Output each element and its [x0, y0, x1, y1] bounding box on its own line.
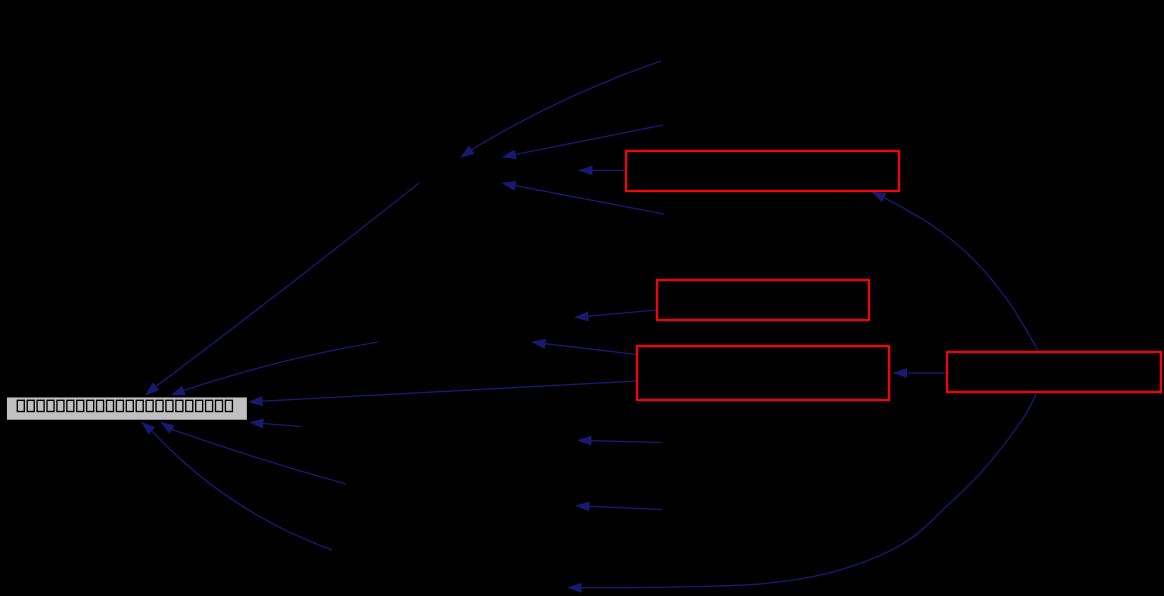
- edge middle node2 to gray node arrowhead: [171, 386, 186, 396]
- node R4 (red truncated box): [947, 352, 1161, 392]
- node R3 (red truncated box): [637, 346, 889, 400]
- edge caller3 to middle node arrowhead: [501, 181, 516, 191]
- edge node R3 to middle node: [545, 344, 636, 355]
- edge lower node1 to gray node (curve) arrowhead: [160, 422, 175, 434]
- edge node R2 to middle node arrowhead: [574, 311, 589, 321]
- edge caller1 to middle node: [472, 61, 661, 150]
- edge node R3 to middle node arrowhead: [531, 339, 546, 349]
- edge node R4 to node R3 arrowhead: [893, 368, 908, 378]
- edge node R1 to middle node arrowhead: [578, 165, 593, 175]
- edge lower node1 to gray node (curve): [172, 430, 346, 485]
- edge short caller to gray node arrowhead: [249, 419, 264, 429]
- edge middle node to gray node arrowhead: [145, 382, 159, 395]
- edge caller4 to middle node arrowhead: [577, 436, 592, 446]
- edge lower node2 to gray node (curve): [152, 431, 332, 550]
- edge node R4 to node R1 (curve) arrowhead: [871, 192, 886, 203]
- edge node R2 to middle node: [588, 310, 656, 316]
- edge caller5 to middle node: [590, 506, 663, 509]
- edge caller2 to middle node: [516, 125, 663, 154]
- edge caller1 to middle node arrowhead: [460, 146, 475, 159]
- edge caller5 to middle node arrowhead: [575, 501, 590, 511]
- edge node R3 to gray node arrowhead: [248, 396, 263, 406]
- edge node R4 to bottom node (big curve): [582, 392, 1038, 588]
- edge middle node to gray node: [156, 183, 419, 386]
- node R1 (red truncated box): [626, 151, 899, 191]
- edge lower node2 to gray node (curve) arrowhead: [141, 422, 155, 435]
- edge middle node2 to gray node: [184, 342, 378, 390]
- edge caller3 to middle node: [516, 186, 665, 214]
- edge node R3 to gray node: [263, 381, 638, 401]
- edge node R4 to node R3: [907, 372, 947, 374]
- edge node R4 to node R1 (curve): [884, 198, 1039, 353]
- edge caller2 to middle node arrowhead: [502, 150, 517, 160]
- edge caller4 to middle node: [592, 441, 663, 443]
- edge node R4 to bottom node (big curve) arrowhead: [567, 583, 582, 593]
- edge short caller to gray node: [264, 424, 302, 427]
- gray current-function node: [6, 397, 247, 420]
- edge node R1 to middle node: [593, 169, 627, 171]
- node R2 (red truncated box): [657, 280, 869, 320]
